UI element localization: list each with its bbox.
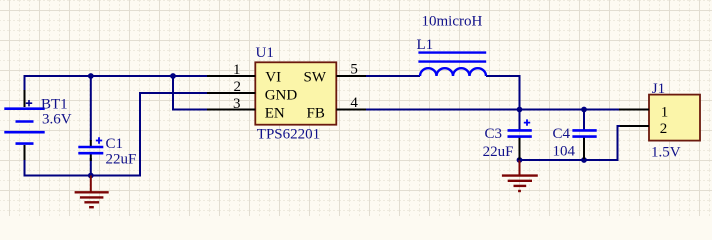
svg-text:3.6V: 3.6V [42,112,72,128]
svg-text:2: 2 [234,79,242,95]
svg-text:J1: J1 [652,81,665,97]
svg-text:3: 3 [233,96,241,112]
wire: SW to L1 [366,75,420,77]
ground (right) [502,160,538,191]
wire: C1 stem lower [90,158,92,176]
junction at C1 top [88,73,94,79]
svg-text:SW: SW [304,69,327,85]
wire: battery bottom stem [24,158,26,177]
wire: EN branch vertical from top rail [172,76,174,110]
svg-text:5: 5 [350,62,358,78]
svg-text:BT1: BT1 [41,97,68,113]
battery BT1 [4,90,44,160]
svg-text:EN: EN [265,105,285,121]
svg-text:GND: GND [265,88,298,104]
svg-text:22uF: 22uF [106,152,137,168]
pin 5 stub [336,75,366,77]
op IC U1 body [255,62,336,124]
wire: ground rail to J1 pin2 [520,126,621,161]
svg-text:2: 2 [660,121,668,137]
J1 pin 2 stub [620,125,649,127]
inductor L1 [418,53,486,76]
wire: battery top stem [24,75,26,92]
svg-text:104: 104 [553,144,576,160]
wire: C1 stem upper [90,76,92,141]
junction at C3 top [517,107,523,113]
pin 1 stub [207,75,255,77]
svg-text:1: 1 [661,104,669,120]
wire: bottom rail [25,175,142,177]
svg-text:C4: C4 [553,126,571,142]
svg-text:10microH: 10microH [422,13,483,29]
capacitor C3 [508,110,532,161]
svg-text:22uF: 22uF [483,144,514,160]
svg-text:4: 4 [350,95,358,111]
ground (left) [75,176,109,208]
J1 pin 1 stub [619,109,649,111]
junction at C3 bottom [517,157,523,163]
junction at C4 bottom [581,157,587,163]
wire: EN branch horizontal to U1 pin3 [172,109,207,111]
wire: GND branch from U1 pin2 [140,92,207,176]
wire: VIN top rail from battery to U1 pin1 [25,75,208,77]
capacitor C4 [572,110,596,161]
svg-text:1: 1 [233,62,241,78]
svg-text:FB: FB [307,105,325,121]
pin 2 stub [207,92,255,94]
svg-text:C1: C1 [106,136,124,152]
svg-text:L1: L1 [417,37,434,53]
pin 4 stub [336,109,366,111]
wire: L1 to output node (down) [486,75,520,110]
pin 3 stub [207,109,255,111]
junction at C1 bottom [88,173,94,179]
junction at C4 top [581,107,587,113]
svg-text:VI: VI [265,69,281,85]
junction at EN branch [170,73,176,79]
wire: output rail FB to J1 pin1 [366,109,619,111]
svg-text:C3: C3 [485,126,503,142]
svg-text:U1: U1 [256,45,274,61]
capacitor C1 [78,137,103,161]
svg-text:TPS62201: TPS62201 [257,127,320,143]
svg-text:1.5V: 1.5V [651,144,681,160]
connector J1 body [649,95,700,141]
